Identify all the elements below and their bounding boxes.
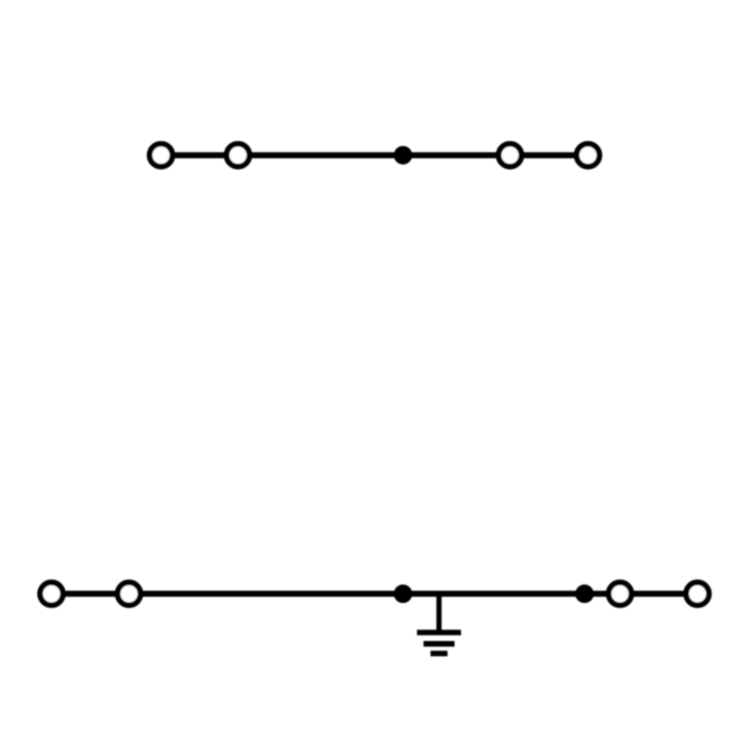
ground (417, 633, 461, 654)
terminal T7 (609, 582, 632, 605)
terminal T1 (150, 144, 173, 167)
terminal T3 (499, 144, 522, 167)
junction bottom rail right (575, 585, 594, 604)
terminal T5 (40, 582, 63, 605)
wire ground drop (436, 594, 441, 633)
wire bottom rail (52, 591, 698, 597)
wire top rail (161, 152, 588, 158)
terminal T4 (577, 144, 600, 167)
terminal T2 (227, 144, 250, 167)
terminal T6 (118, 582, 141, 605)
terminal T8 (686, 582, 709, 605)
junction bottom rail left (394, 585, 413, 604)
junction top rail (394, 146, 413, 165)
